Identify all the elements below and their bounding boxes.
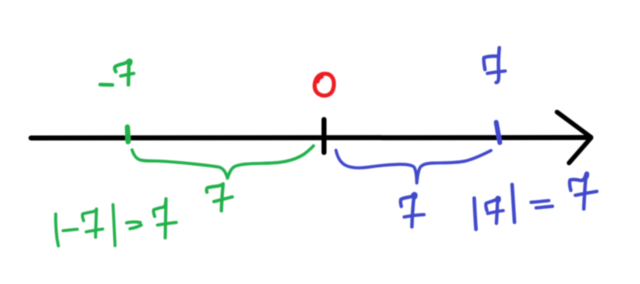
green equation, minus <box>63 229 77 231</box>
label 7 above line (blue), crossbar <box>487 71 505 73</box>
green equation, equals <box>127 222 142 229</box>
tick at 7 (blue) <box>496 122 500 142</box>
label -7 (green), loop blob at top of 7 <box>128 60 132 64</box>
tick at 0 (black) <box>322 120 327 153</box>
number line <box>31 135 589 141</box>
label -7 (green), minus sign <box>100 83 112 87</box>
blue equation, result 7 <box>570 173 588 209</box>
blue underbrace from 0 to 7 <box>336 150 491 183</box>
green 7 under brace <box>207 184 224 211</box>
tick at -7 (green) <box>125 127 131 142</box>
blue 7 under brace <box>401 194 416 227</box>
green equation, result 7 <box>153 199 166 238</box>
blue equation, digit 7 <box>486 198 499 224</box>
label 7 above line (blue), hook+top <box>484 56 498 69</box>
label -7 (green), digit 7 <box>115 60 131 85</box>
label 0 (red) <box>315 74 334 96</box>
green underbrace from -7 to 0 <box>132 146 314 179</box>
green equation, digit 7 <box>82 209 96 237</box>
blue equation |7| = 7, bar 1 <box>474 198 476 229</box>
arrowhead <box>557 112 591 163</box>
green equation, bar 2 <box>113 205 115 246</box>
blue equation, bar 2 <box>512 185 514 223</box>
blue equation, equals <box>531 201 552 208</box>
label 0 (red), inner doubled stroke <box>318 77 322 82</box>
green equation |-7| = 7, bar 1 <box>56 214 59 246</box>
label 7 above line (blue), stem <box>496 48 499 83</box>
